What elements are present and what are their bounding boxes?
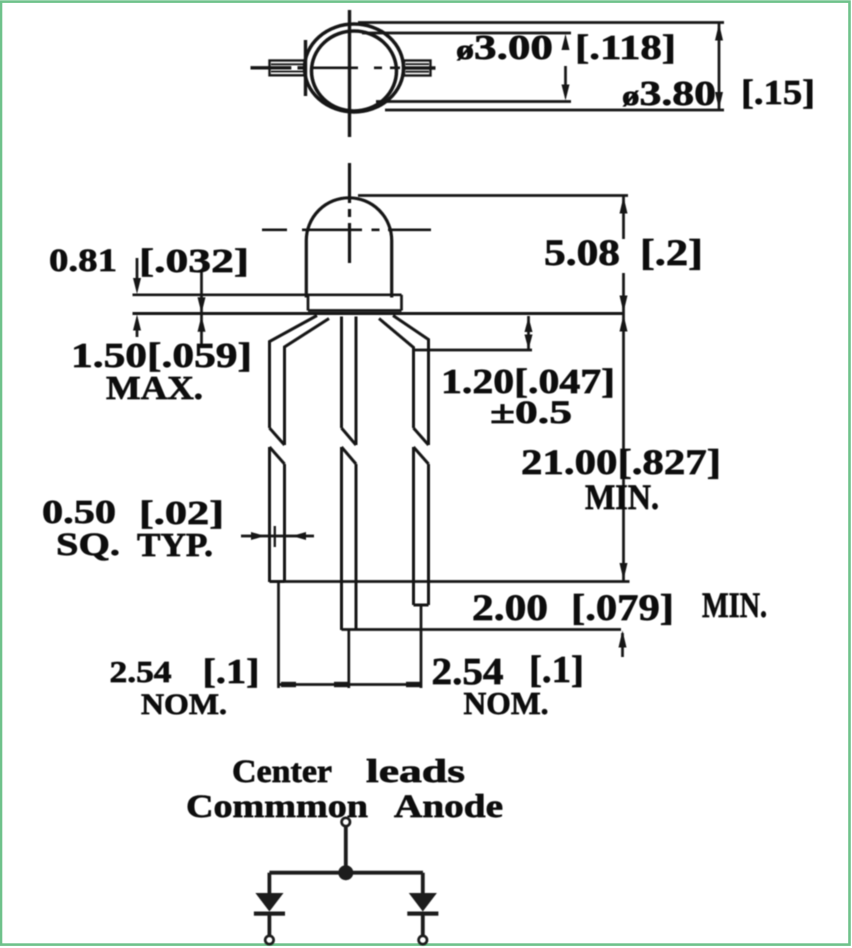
vertical centerline [348, 163, 351, 263]
LED outer flange circle (top view) [305, 24, 404, 112]
epoxy dome [306, 198, 391, 241]
svg-text:MIN.: MIN. [585, 477, 659, 517]
svg-text:2.54: 2.54 [110, 654, 172, 689]
arrow dia3.00 up [562, 34, 570, 50]
2.54 extension line right [420, 606, 423, 688]
diode D2 triangle [409, 893, 437, 912]
2.54 dimension line [279, 683, 422, 686]
arrow dia3.80 down [715, 92, 723, 109]
extension line dia3.80 top [358, 21, 724, 24]
left wing outer [270, 316, 318, 429]
arrow 1.20 down [525, 335, 533, 350]
0.50 cross tick [274, 526, 276, 547]
center lead end line [342, 628, 622, 631]
center lead lower [340, 447, 343, 630]
wire left diode to pin [267, 916, 271, 937]
arrow 1.20 up [525, 317, 533, 332]
svg-text:Commmon: Commmon [186, 789, 368, 825]
svg-text:[.1]: [.1] [203, 652, 260, 691]
body side right [390, 241, 393, 298]
right lead lower [412, 447, 415, 605]
LED body circle (top view) [312, 31, 397, 111]
svg-text:NOM.: NOM. [141, 688, 227, 721]
svg-text:NOM.: NOM. [464, 685, 549, 721]
svg-text:±0.5: ±0.5 [490, 395, 572, 431]
body side left [305, 241, 308, 298]
wire horizontal [269, 871, 423, 875]
left lead tab [251, 61, 306, 76]
flange top line A [133, 293, 402, 296]
2.54 arrow tick right [406, 682, 421, 687]
0.81 dim line upper [136, 258, 139, 280]
arrow 21.00 top [620, 315, 628, 332]
vertical centerline [348, 10, 351, 137]
svg-text:0.81: 0.81 [49, 243, 117, 279]
arrow 1.50 up [198, 316, 206, 332]
svg-text:SQ.: SQ. [56, 527, 120, 563]
diode D1 triangle [255, 893, 283, 912]
anode terminal [342, 818, 350, 826]
horizontal centerline [313, 67, 400, 70]
arrow 5.08 bottom [620, 296, 628, 313]
2.00 lower dim stub [621, 633, 624, 657]
svg-text:0.50: 0.50 [42, 494, 116, 531]
2.54 arrow tick center [334, 682, 349, 687]
dimension line dia3.00 [564, 66, 567, 90]
svg-text:Anode: Anode [394, 789, 503, 825]
dome top extension line [358, 194, 628, 197]
right lead break [414, 428, 429, 445]
right lead tab [402, 61, 436, 76]
svg-text:21.00[.827]: 21.00[.827] [521, 442, 721, 482]
extension line dia3.80 bottom [385, 109, 724, 112]
1.20 reference line [414, 349, 532, 352]
dimension line dia3.80 [718, 23, 721, 111]
flange left edge [307, 295, 310, 311]
svg-text:MAX.: MAX. [106, 370, 203, 407]
lead end line (21.00 bottom) [270, 580, 630, 583]
svg-text:TYP.: TYP. [137, 527, 213, 564]
main right dim line (5.08 / 21.00) [622, 196, 625, 581]
flange bottom [308, 309, 402, 312]
junction node [338, 865, 353, 880]
center lead break [342, 428, 357, 445]
svg-text:Center: Center [232, 754, 332, 790]
extension line dia3.00 bottom [376, 100, 571, 103]
center lead upper [340, 317, 343, 429]
svg-text:[.032]: [.032] [139, 243, 249, 280]
svg-text:5.08: 5.08 [544, 233, 620, 274]
svg-text:[.079]: [.079] [571, 588, 674, 629]
arrow 5.08 top [620, 197, 628, 214]
0.81 dim line lower [136, 322, 139, 337]
flange right edge [400, 295, 403, 311]
seating plane line B [133, 312, 624, 315]
svg-text:[.15]: [.15] [741, 73, 815, 112]
left lead lower [268, 447, 271, 582]
wire right diode to pin [421, 916, 425, 937]
extension line dia3.00 top [362, 32, 571, 35]
diode D1 cathode bar [254, 912, 285, 916]
svg-text:2.00: 2.00 [472, 588, 548, 629]
0.50 leader line [241, 535, 314, 538]
wire right branch [421, 873, 425, 894]
right wing outer [393, 316, 429, 446]
arrow dia3.00 down [562, 85, 570, 101]
2.54 extension line center [347, 630, 350, 688]
arrow 21.00 bottom [620, 563, 628, 580]
arrow 1.50 down [198, 297, 206, 313]
left wing inner [285, 319, 330, 446]
1.20 dim line [527, 316, 530, 350]
wire left branch [267, 873, 271, 894]
arrow dia3.80 up [715, 24, 723, 41]
arrow 0.81 down [133, 278, 141, 294]
svg-text:[.2]: [.2] [640, 233, 703, 274]
right wing inner [379, 319, 414, 429]
horizontal centerline [262, 229, 431, 232]
wire anode down [344, 827, 348, 869]
svg-text:leads: leads [366, 754, 465, 790]
arrow 0.50 right [251, 532, 265, 540]
2.54 arrow tick left [281, 682, 296, 687]
right pin terminal [419, 936, 427, 944]
2.54 extension line left [277, 582, 280, 688]
flange flat edge [304, 40, 307, 96]
left pin terminal [265, 936, 273, 944]
diode D2 cathode bar [407, 912, 438, 916]
arrow 2.00 up [619, 631, 627, 648]
svg-text:MIN.: MIN. [702, 585, 767, 625]
arrow 0.50 left [292, 532, 306, 540]
svg-text:[.118]: [.118] [575, 28, 676, 67]
1.50 dim line [200, 272, 203, 346]
arrow 0.81 up [133, 315, 141, 331]
left lead break [270, 428, 285, 445]
